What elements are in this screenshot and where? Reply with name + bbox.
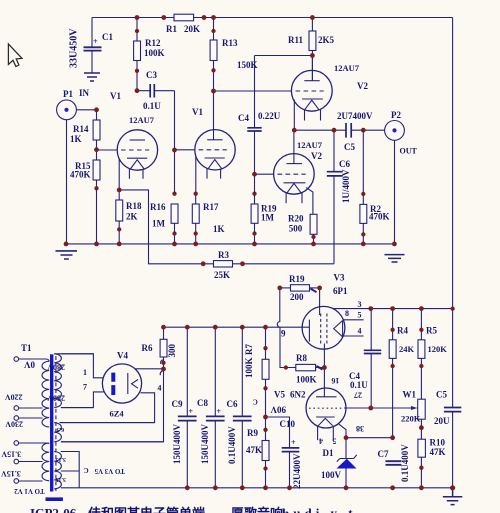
wire output node — [294, 129, 384, 131]
ground (P1) — [56, 251, 78, 259]
svg-text:V3: V3 — [334, 273, 345, 283]
svg-text:1K: 1K — [70, 134, 82, 144]
wire V1b grid — [175, 149, 195, 151]
capacitor C6 — [327, 130, 343, 264]
svg-text:38: 38 — [356, 424, 364, 433]
svg-text:230V: 230V — [5, 420, 23, 429]
svg-text:0.1U: 0.1U — [143, 101, 161, 111]
svg-text:R7: R7 — [244, 344, 254, 355]
junction dots top — [64, 15, 397, 266]
svg-text:24K: 24K — [399, 344, 415, 354]
resistor R15 — [93, 160, 100, 244]
svg-text:hudi y t: hudi y t — [282, 506, 357, 513]
svg-text:2U7400V: 2U7400V — [337, 111, 373, 121]
resistor R14 — [93, 110, 100, 160]
svg-text:V1: V1 — [110, 91, 121, 101]
svg-text:4: 4 — [319, 437, 323, 446]
capacitor C1 — [84, 47, 102, 50]
resistor R20 — [310, 214, 317, 244]
svg-text:R6: R6 — [142, 343, 153, 353]
resistor R19 top — [251, 174, 258, 244]
resistor R6 — [160, 327, 167, 369]
svg-text:6.3: 6.3 — [57, 426, 65, 432]
svg-text:C10: C10 — [280, 419, 296, 429]
svg-text:150U400V: 150U400V — [172, 424, 182, 464]
svg-text:TO V3 V5: TO V3 V5 — [94, 467, 125, 475]
svg-text:佳和图某电子管单端——愿歌音响: 佳和图某电子管单端——愿歌音响 — [88, 506, 283, 513]
svg-text:P2: P2 — [391, 110, 401, 120]
wire C1 leads — [91, 18, 93, 73]
svg-text:22U400V: 22U400V — [292, 453, 302, 489]
svg-text:P1: P1 — [63, 89, 73, 99]
svg-text:8: 8 — [345, 309, 349, 318]
resistor R10 — [418, 439, 426, 488]
svg-text:V4: V4 — [117, 351, 128, 361]
transformer T1 secondary winding — [54, 354, 61, 408]
capacitor C9 — [178, 327, 197, 488]
wire PSU ground rail — [61, 487, 453, 489]
svg-text:R10: R10 — [430, 438, 446, 448]
svg-text:120K: 120K — [428, 344, 448, 354]
svg-text:W1: W1 — [403, 390, 417, 400]
svg-text:V5: V5 — [274, 390, 285, 400]
svg-text:27: 27 — [354, 391, 362, 400]
svg-text:7: 7 — [83, 383, 87, 392]
junction dots bottom — [161, 286, 455, 491]
svg-text:+: + — [93, 37, 98, 46]
diode D1 zener — [337, 438, 357, 488]
svg-text:100K: 100K — [144, 48, 165, 58]
capacitor C5 psu — [444, 309, 461, 488]
svg-text:12AU7: 12AU7 — [297, 140, 323, 150]
tube V1 triode A — [117, 130, 157, 190]
resistor R11 — [309, 18, 316, 81]
svg-text:3: 3 — [358, 300, 362, 309]
capacitor C4 — [247, 56, 261, 175]
tube V3 pentode — [302, 306, 453, 396]
svg-text:6P1: 6P1 — [333, 286, 348, 296]
transformer T1 terminals — [14, 357, 19, 484]
capacitor C5 — [346, 123, 351, 138]
wire ground rail (top circuit) — [66, 243, 394, 245]
capacitor C4 psu — [364, 309, 381, 408]
svg-text:20K: 20K — [184, 24, 200, 34]
svg-text:IN: IN — [79, 88, 90, 98]
svg-text:1M: 1M — [152, 219, 166, 229]
resistor R9 — [262, 417, 269, 488]
svg-text:C5: C5 — [344, 142, 355, 152]
svg-text:R8: R8 — [296, 353, 307, 363]
svg-text:300: 300 — [167, 344, 177, 358]
svg-text:1K: 1K — [213, 224, 225, 234]
svg-text:C3: C3 — [146, 70, 157, 80]
resistor R7 — [262, 327, 269, 417]
svg-text:500: 500 — [289, 224, 303, 234]
wire R19 left to raw rail — [277, 288, 280, 327]
svg-text:C1: C1 — [102, 32, 113, 42]
svg-text:470K: 470K — [369, 212, 390, 222]
svg-text:5: 5 — [358, 311, 362, 320]
svg-text:280V: 280V — [47, 394, 65, 403]
svg-text:+: + — [217, 407, 222, 416]
svg-text:R14: R14 — [73, 124, 89, 134]
svg-text:R3: R3 — [218, 250, 229, 260]
svg-text:90V: 90V — [270, 405, 286, 415]
tube V2 triode A — [291, 56, 332, 131]
capacitor C7 — [386, 461, 402, 465]
capacitor C8 — [206, 327, 225, 488]
ground (C1) — [84, 73, 100, 81]
svg-text:0.1U400V: 0.1U400V — [400, 444, 410, 482]
capacitor C6 psu — [233, 327, 252, 488]
svg-text:R12: R12 — [145, 38, 161, 48]
svg-text:C4: C4 — [238, 113, 249, 123]
svg-text:R17: R17 — [203, 202, 219, 212]
wire raw B+ rail (PSU) — [164, 326, 310, 328]
svg-text:R18: R18 — [126, 201, 142, 211]
svg-text:2K5: 2K5 — [318, 35, 335, 45]
ground (PSU main) — [443, 488, 463, 505]
resistor R19 psu — [280, 285, 320, 293]
tube V5 triode — [306, 388, 371, 440]
wire R6 to 6.3V winding — [61, 369, 164, 442]
svg-text:+: + — [189, 407, 194, 416]
svg-text:280V: 280V — [47, 363, 65, 372]
transformer T1 core — [46, 354, 63, 501]
capacitor C3 — [137, 84, 175, 98]
wire feedback V1a cathode — [119, 190, 203, 264]
svg-text:3.15: 3.15 — [56, 476, 67, 482]
svg-text:R4: R4 — [397, 326, 408, 336]
svg-text:R5: R5 — [426, 326, 437, 336]
wire R11 bottom to C4 — [255, 55, 313, 57]
svg-text:C7: C7 — [378, 449, 389, 459]
tube V2 triode B — [274, 130, 315, 214]
resistor R3 — [203, 261, 334, 267]
svg-text:V2: V2 — [357, 81, 368, 91]
svg-text:20U: 20U — [434, 416, 450, 426]
wire zener node — [346, 437, 393, 439]
svg-text:V2: V2 — [311, 151, 322, 161]
labels bottom section — [1, 273, 450, 495]
svg-text:3.15V: 3.15V — [1, 469, 21, 478]
resistor R1 — [164, 14, 204, 21]
svg-text:0.1U400V: 0.1U400V — [227, 426, 237, 464]
svg-text:6N2: 6N2 — [290, 390, 306, 400]
svg-text:9: 9 — [281, 329, 286, 339]
svg-text:2K: 2K — [126, 212, 138, 222]
svg-text:3.15: 3.15 — [56, 456, 67, 462]
svg-text:C9: C9 — [172, 399, 183, 409]
svg-text:C: C — [84, 466, 89, 474]
transformer T1 primary winding — [19, 359, 50, 481]
wire V4 output — [135, 368, 164, 370]
hook below R6 junction — [160, 371, 163, 376]
svg-text:R20: R20 — [288, 214, 304, 224]
resistor R4 — [389, 309, 396, 438]
hook R6 pin — [161, 360, 164, 364]
connector P1 — [57, 100, 97, 244]
svg-text:220V: 220V — [5, 393, 23, 402]
wire V2b grid — [255, 173, 274, 175]
wire secondary leads — [54, 354, 163, 488]
svg-text:1U/400V: 1U/400V — [341, 169, 351, 203]
svg-text:4: 4 — [358, 327, 362, 336]
ground (output) — [385, 255, 405, 262]
svg-text:0.22U: 0.22U — [258, 111, 281, 121]
resistor R8 — [280, 327, 324, 371]
wire R19 right to V3 screen — [319, 288, 321, 315]
wire V1a grid — [97, 149, 118, 151]
svg-text:16: 16 — [331, 376, 339, 385]
svg-text:R19: R19 — [289, 274, 305, 284]
svg-text:25K: 25K — [214, 270, 230, 280]
svg-text:220K: 220K — [401, 414, 421, 424]
svg-text:150U400V: 150U400V — [200, 424, 210, 464]
svg-text:D1: D1 — [323, 448, 334, 458]
svg-text:R13: R13 — [222, 38, 238, 48]
resistor R5 — [418, 309, 425, 400]
svg-text:R11: R11 — [288, 35, 304, 45]
svg-text:T1: T1 — [21, 343, 32, 353]
svg-text:3.15V: 3.15V — [1, 450, 21, 459]
svg-text:33U450V: 33U450V — [69, 28, 80, 68]
svg-text:150K: 150K — [237, 60, 258, 70]
tube V4 rectifier — [60, 354, 155, 423]
svg-text:6Z4: 6Z4 — [110, 409, 125, 419]
svg-text:R1: R1 — [166, 24, 177, 34]
svg-text:C8: C8 — [197, 398, 208, 408]
wire B+ right vertical — [452, 18, 454, 309]
svg-text:R9: R9 — [247, 428, 258, 438]
svg-text:47K: 47K — [430, 447, 446, 457]
svg-text:100V: 100V — [321, 470, 342, 480]
resistor R13 — [210, 18, 217, 140]
svg-text:4: 4 — [158, 384, 162, 393]
wire C3 to V1b grid and R16 — [174, 91, 176, 194]
svg-text:R16: R16 — [150, 202, 166, 212]
labels top section — [63, 24, 418, 280]
potentiometer W1 — [371, 399, 425, 439]
svg-text:12AU7: 12AU7 — [334, 63, 360, 73]
svg-text:0.1U: 0.1U — [350, 380, 368, 390]
svg-text:C6: C6 — [339, 159, 350, 169]
capacitor C10 — [266, 417, 300, 488]
svg-text:1M: 1M — [261, 213, 275, 223]
svg-text:470K: 470K — [70, 170, 91, 180]
wire B+ top rail — [92, 17, 453, 19]
svg-text:12AU7: 12AU7 — [129, 115, 155, 125]
svg-text:C: C — [253, 397, 258, 405]
svg-text:C5: C5 — [436, 390, 447, 400]
resistor R2 — [360, 130, 367, 244]
svg-text:V1: V1 — [192, 107, 203, 117]
svg-text:C6: C6 — [227, 399, 238, 409]
svg-text:ICP2-06: ICP2-06 — [30, 506, 77, 513]
svg-text:47K: 47K — [246, 445, 262, 455]
svg-text:TO V1 V2: TO V1 V2 — [14, 487, 45, 495]
svg-text:200: 200 — [290, 292, 304, 302]
resistor R18 — [116, 190, 123, 244]
resistor R12 — [134, 18, 141, 91]
svg-text:+: + — [291, 438, 296, 447]
tube V1 triode B — [195, 130, 235, 194]
wire R13 node to V2a grid — [214, 90, 292, 92]
resistor R16 — [171, 204, 178, 244]
mouse cursor — [8, 44, 22, 67]
svg-text:OUT: OUT — [400, 147, 418, 156]
svg-text:1: 1 — [83, 368, 87, 377]
svg-text:100K: 100K — [244, 357, 254, 378]
svg-text:5: 5 — [332, 437, 336, 446]
resistor R17 — [192, 194, 199, 244]
svg-text:100K: 100K — [296, 375, 317, 385]
svg-text:0V: 0V — [24, 360, 36, 370]
connector P2 — [385, 120, 405, 243]
